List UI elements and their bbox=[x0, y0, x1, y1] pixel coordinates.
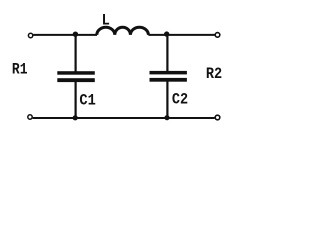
svg-text:C2: C2 bbox=[172, 90, 188, 108]
wire bottom bbox=[33, 117, 215, 119]
capacitor C1 top plate bbox=[57, 71, 95, 75]
node junction bottom C2 bbox=[164, 115, 169, 120]
svg-text:C1: C1 bbox=[79, 92, 95, 110]
wire top-left segment bbox=[33, 34, 97, 36]
terminal top-right bbox=[215, 33, 220, 38]
svg-text:R1: R1 bbox=[12, 60, 28, 78]
capacitor C2 top plate bbox=[150, 71, 187, 75]
terminal top-left bbox=[28, 33, 32, 37]
wire C1 upper lead bbox=[74, 35, 76, 72]
wire top-right segment bbox=[148, 34, 214, 36]
wire C2 upper lead bbox=[166, 35, 168, 71]
wire C1 lower lead bbox=[74, 82, 76, 118]
terminal bottom-right bbox=[215, 115, 220, 120]
capacitor C1 bottom plate bbox=[57, 78, 95, 82]
inductor L bbox=[97, 27, 149, 35]
svg-text:L: L bbox=[102, 12, 110, 30]
node junction top C1 bbox=[73, 32, 78, 37]
terminal bottom-left bbox=[28, 115, 32, 119]
wire C2 lower lead bbox=[166, 82, 168, 119]
node junction bottom C1 bbox=[73, 115, 78, 120]
capacitor C2 bottom plate bbox=[150, 78, 187, 82]
node junction top C2 bbox=[164, 31, 169, 36]
svg-text:R2: R2 bbox=[206, 65, 222, 83]
